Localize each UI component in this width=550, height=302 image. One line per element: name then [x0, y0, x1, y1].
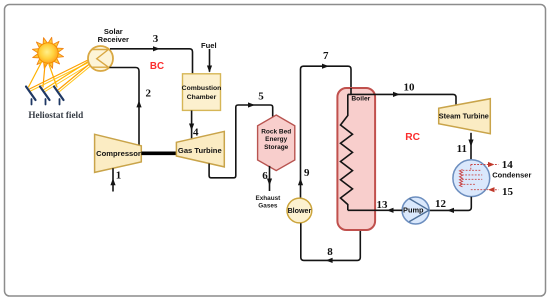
arrow pipe 7: [322, 64, 329, 69]
arrow pipe 4: [189, 124, 194, 131]
sun: [32, 37, 63, 68]
svg-text:1: 1: [116, 170, 122, 182]
svg-text:10: 10: [404, 81, 416, 93]
svg-text:Heliostat field: Heliostat field: [28, 110, 83, 120]
svg-text:Steam Turbine: Steam Turbine: [439, 111, 489, 120]
svg-text:Blower: Blower: [288, 207, 312, 215]
pipe 9-7 (blower up to boiler): [301, 66, 352, 198]
svg-text:Condenser: Condenser: [492, 170, 531, 179]
svg-text:RC: RC: [405, 132, 420, 143]
red arrow 15 (cooling water in): [488, 187, 499, 192]
combustion chamber: [183, 74, 221, 111]
pipe 6 (exhaust out): [269, 166, 271, 191]
pipe 4 (chamber to gas turbine): [191, 111, 193, 139]
svg-text:7: 7: [323, 50, 329, 62]
svg-text:Gases: Gases: [258, 202, 278, 209]
gas turbine: [176, 131, 224, 167]
svg-text:9: 9: [304, 167, 310, 179]
pipe 3 (receiver to combustion chamber): [110, 49, 193, 74]
condenser: [453, 160, 490, 197]
svg-text:Rock Bed: Rock Bed: [261, 128, 291, 135]
arrow pipe 2: [136, 100, 141, 107]
svg-text:Gas Turbine: Gas Turbine: [178, 146, 222, 155]
svg-text:13: 13: [377, 199, 389, 211]
boiler: [337, 88, 375, 230]
rock bed energy storage: [258, 115, 295, 171]
arrow pipe 6: [267, 179, 272, 186]
svg-text:Pump: Pump: [403, 206, 424, 215]
svg-text:12: 12: [435, 198, 447, 210]
condenser coil dashes: [460, 165, 489, 190]
arrow pipe 8: [326, 258, 333, 263]
svg-text:Storage: Storage: [264, 144, 289, 151]
boiler inlet drop (pipe 7 inside): [350, 88, 352, 94]
svg-text:Fuel: Fuel: [201, 41, 217, 50]
red arrow 14 (cooling water out): [488, 162, 499, 167]
sun rays to heliostats: [29, 62, 58, 87]
heliostat panel 3: [54, 87, 64, 105]
svg-text:Receiver: Receiver: [98, 35, 129, 44]
blower: [287, 198, 312, 223]
pipe 8 (boiler bottom to blower): [301, 223, 361, 260]
arrow pipe 5: [248, 102, 255, 107]
svg-text:Combustion: Combustion: [182, 85, 222, 92]
compressor: [95, 134, 142, 172]
arrow pipe 1: [110, 178, 115, 185]
arrow pipe 13: [387, 208, 394, 213]
svg-text:Exhaust: Exhaust: [255, 195, 281, 202]
svg-text:15: 15: [502, 186, 514, 198]
pipe 12 (condenser to pump): [430, 197, 472, 211]
svg-text:8: 8: [327, 246, 333, 258]
shaft: [141, 152, 176, 156]
heliostat panel 2: [40, 87, 50, 105]
solar receiver circle: [88, 46, 113, 71]
svg-text:Compressor: Compressor: [96, 149, 141, 158]
heliostat panel 1: [26, 87, 36, 105]
pipe 5 (turbine exhaust to rock bed): [209, 105, 273, 178]
arrow pipe 11: [468, 140, 473, 147]
svg-text:2: 2: [146, 88, 152, 100]
boiler coil zigzag: [341, 94, 353, 210]
arrow pipe 10: [393, 92, 400, 97]
svg-text:3: 3: [153, 33, 159, 45]
arrow pipe 12: [447, 208, 454, 213]
steam turbine: [439, 99, 491, 134]
pipe 11 (turbine to condenser): [470, 133, 472, 160]
pipe 2 (compressor to receiver): [109, 68, 139, 146]
arrow pipe 3: [153, 46, 160, 51]
pipe 13 (pump to boiler): [348, 209, 403, 211]
svg-text:Energy: Energy: [265, 136, 287, 143]
pipe 10 (boiler to steam turbine): [348, 94, 456, 107]
fuel arrow: [209, 49, 211, 72]
svg-text:Boiler: Boiler: [351, 96, 370, 103]
svg-text:5: 5: [258, 90, 264, 102]
svg-text:6: 6: [262, 170, 268, 182]
svg-text:14: 14: [502, 159, 514, 171]
svg-text:BC: BC: [150, 61, 164, 72]
pump: [402, 197, 429, 224]
arrow pipe 9: [298, 178, 303, 185]
reflected rays to receiver: [30, 60, 91, 93]
pipe 1 (air inlet): [112, 168, 114, 191]
svg-text:Chamber: Chamber: [187, 94, 217, 101]
svg-text:11: 11: [457, 143, 467, 155]
